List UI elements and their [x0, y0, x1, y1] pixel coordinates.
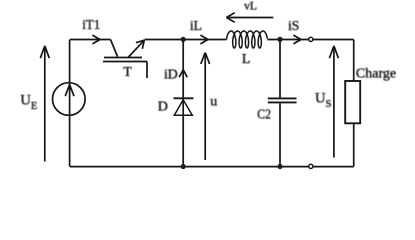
svg-text:iD: iD [164, 67, 178, 82]
svg-text:T: T [123, 65, 132, 80]
svg-text:vL: vL [244, 0, 257, 12]
svg-text:iT1: iT1 [82, 18, 100, 33]
svg-text:u: u [210, 95, 217, 110]
svg-text:iS: iS [288, 19, 299, 34]
svg-text:Charge: Charge [356, 66, 396, 81]
svg-text:C2: C2 [257, 107, 271, 122]
svg-text:D: D [158, 100, 168, 115]
svg-text:iL: iL [190, 19, 202, 34]
svg-text:L: L [242, 52, 251, 67]
